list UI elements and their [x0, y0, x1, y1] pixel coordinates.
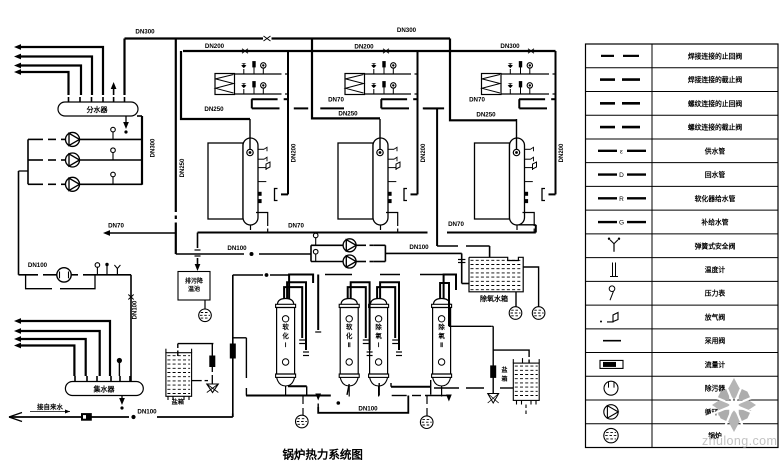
thermometer stem on pipe y94 B1unit — [253, 87, 255, 94]
wire steam trunk B2unit (to bracket) — [417, 51, 419, 194]
wire DN300 drop to distributor — [123, 39, 125, 96]
wire pump suction header (vertical) — [27, 139, 29, 184]
boiler body B1unit — [208, 143, 243, 219]
wire circ pump line 3 (left) — [28, 183, 43, 185]
gauge on feed pump 1 — [315, 237, 317, 245]
wire DN70 loop seal B1unit (C-shape) — [252, 98, 278, 100]
drum blowdown tick 2 B3unit — [525, 200, 528, 203]
feedwater check valve B3unit — [516, 119, 518, 149]
wire feed pump discharge manifold — [384, 245, 386, 261]
svg-text:供水管: 供水管 — [704, 146, 726, 155]
svg-text:补给水管: 补给水管 — [700, 218, 728, 227]
wire feed pump 1 discharge — [356, 244, 366, 246]
svg-text:氧: 氧 — [437, 331, 445, 340]
wire DN100 pump discharge line — [385, 252, 461, 254]
valve stem on pipe y74 B1unit — [243, 69, 245, 74]
valve stem on pipe y94 B2unit — [373, 89, 375, 94]
valve (black) on ejector line — [210, 356, 215, 367]
steam drum B3unit — [510, 138, 525, 225]
drum safety valve B2unit — [388, 167, 396, 169]
return line 2 — [20, 331, 100, 376]
ion-exchanger column C2 top dome — [341, 299, 357, 305]
svg-text:DN300: DN300 — [151, 138, 157, 157]
legend symbol row 1 — [601, 55, 614, 57]
wire DN70 loop seal B3unit (C-shape) — [519, 98, 545, 100]
check dot on DN100 line — [250, 253, 253, 256]
wire funnel riser lower — [492, 377, 494, 393]
floor drain (columns right) — [426, 396, 428, 405]
svg-text:DN200: DN200 — [421, 143, 427, 162]
distributor drain arrow — [125, 116, 127, 125]
ejector valve stem — [211, 344, 213, 356]
wire DN70 loop seal B2unit (C-shape) — [381, 98, 407, 100]
wire DN100 bottom loop — [317, 396, 319, 397]
svg-text:DN250: DN250 — [338, 111, 358, 118]
legend table frame — [586, 44, 779, 448]
circulation pump P1 — [66, 132, 80, 146]
column C1 bottom head — [277, 377, 295, 386]
svg-text:Ⅰ: Ⅰ — [378, 342, 380, 349]
wire feed pump suction manifold — [310, 245, 312, 261]
feedwater check valve B2unit — [379, 119, 381, 149]
legend symbol row 8 — [598, 221, 617, 223]
wire column C3 riser loop inner — [377, 287, 395, 338]
feedwater check valve B1unit — [249, 119, 251, 149]
wire steam trunk B3unit (to bracket) — [555, 51, 557, 194]
wire feedwater B3unit (from DN300 bus step) — [450, 51, 517, 120]
supply arrow line 4 — [20, 72, 69, 95]
legend table row lines — [586, 67, 779, 69]
supply arrow line 2 — [20, 57, 92, 96]
water distributor 分水器 vessel — [58, 102, 138, 116]
column C2 drain stem — [348, 386, 350, 397]
drum level tick B3unit — [525, 181, 533, 183]
pressure gauge on pump line 3 — [112, 176, 114, 184]
floor drain (deaerator 1) — [509, 307, 522, 320]
water meter on tap line — [82, 414, 92, 421]
wire DN70 bus right riser — [535, 225, 537, 233]
collector bottom drain arrow — [121, 396, 123, 401]
flange bracket B2unit — [404, 189, 407, 201]
svg-text:化: 化 — [346, 331, 353, 340]
wire column C1 riser loop mid — [287, 282, 306, 350]
flange bracket B1unit — [275, 189, 278, 201]
svg-text:焊接连接的止回阀: 焊接连接的止回阀 — [688, 51, 743, 60]
legend symbol row 14 — [600, 360, 623, 368]
blowdown box drain pipe — [204, 300, 206, 309]
floor drain (columns left) — [302, 396, 304, 405]
valve stem on pipe y74 B3unit — [509, 69, 511, 74]
svg-text:DN70: DN70 — [469, 97, 485, 104]
column C4 drain stem — [441, 386, 443, 397]
svg-text:流量计: 流量计 — [705, 360, 726, 369]
wire deaerator head inlet — [437, 245, 458, 247]
pump bypass loop — [26, 275, 52, 289]
pressure gauge on pump line 1 — [112, 131, 114, 139]
wire column C2 drain (diagonal) — [347, 384, 349, 395]
wire steam trunk B1unit (to bracket) — [287, 51, 289, 194]
deaerator tank 除氧水箱 — [469, 257, 523, 292]
svg-text:螺纹连接的止回阀: 螺纹连接的止回阀 — [688, 99, 743, 108]
wire DN70 extension B1unit — [294, 107, 308, 109]
svg-text:DN200: DN200 — [354, 44, 374, 51]
wire column C1 riser loop inner — [284, 287, 302, 338]
ejector funnel (right) — [488, 394, 499, 404]
svg-text:集水器: 集水器 — [93, 385, 116, 394]
wire ejector stem lower — [211, 367, 213, 373]
legend symbol row 15 — [604, 381, 618, 395]
wire overflow from tank — [523, 267, 538, 307]
wire distributor-to-pumps trunk DN300 — [141, 116, 143, 185]
legend symbol row 10 — [612, 262, 614, 276]
drum level tick B1unit — [258, 181, 266, 183]
wire economizer top pipe B3unit — [501, 73, 549, 75]
drum gauge tick 1 B3unit — [525, 148, 531, 150]
right tank bottom stub — [525, 405, 527, 409]
drum gauge tick 2 B2unit — [388, 158, 394, 160]
svg-text:盐箱: 盐箱 — [172, 398, 184, 406]
wire circ pump line 3 (right) — [80, 183, 143, 185]
wire funnel riser top corner — [491, 325, 493, 327]
svg-text:DN200: DN200 — [559, 143, 565, 162]
svg-text:温池: 温池 — [188, 285, 200, 293]
wire drum bottom blowdown B2unit — [386, 213, 398, 227]
svg-text:ε: ε — [620, 148, 623, 155]
valve on softener feed riser — [230, 344, 235, 358]
legend symbol row 2 — [600, 78, 615, 81]
column C2 riser flanges — [363, 339, 369, 341]
junction dot below C2 — [337, 402, 340, 405]
economizer coil zigzag B2unit — [346, 75, 364, 94]
wire riser bottom elbow — [232, 414, 234, 418]
wire discharge drop into tank — [461, 253, 463, 283]
svg-text:采用阀: 采用阀 — [704, 336, 726, 345]
wire col1 elbow piece — [288, 385, 307, 387]
economizer coil zigzag B3unit — [482, 75, 500, 94]
column C4 bottom flange — [432, 374, 452, 377]
wire secondary bus DN200 (y=51) — [183, 50, 556, 52]
column C3 bottom head — [370, 377, 388, 386]
svg-text:压力表: 压力表 — [705, 289, 726, 298]
wire branch to salt system — [233, 337, 247, 339]
svg-text:DN100: DN100 — [409, 244, 429, 251]
wire H3 to column C4 — [391, 386, 431, 388]
right tank water hatching — [515, 365, 538, 367]
blowdown cooling box 排污降温池 — [178, 272, 210, 301]
svg-text:化: 化 — [282, 331, 289, 340]
down arrow end of H2 — [446, 395, 452, 402]
wire column C2 riser loop inner — [348, 287, 366, 338]
safety valve on return line — [116, 269, 118, 275]
wire feedwater B2unit (from DN300 bus) — [312, 39, 380, 119]
svg-text:盐: 盐 — [501, 366, 507, 374]
svg-text:R: R — [619, 196, 624, 203]
gauge stem on pipe y74 B1unit — [262, 68, 264, 74]
drum bottom tick B3unit — [516, 225, 518, 230]
wire tap line to softener riser — [157, 416, 233, 418]
wire pump return riser — [18, 171, 20, 275]
svg-text:DN300: DN300 — [135, 29, 155, 36]
legend symbol row 12 — [607, 312, 618, 322]
column C4 top flange — [432, 304, 452, 307]
right tank feet — [516, 400, 518, 404]
valve stem on pipe y94 B3unit — [509, 89, 511, 94]
drum safety valve B3unit — [525, 167, 533, 169]
salt tank feet — [167, 396, 169, 400]
wire economizer bottom pipe B3unit — [501, 93, 549, 95]
economizer box B1unit — [215, 74, 235, 95]
wire circ pump line 2 (left) — [28, 159, 43, 161]
svg-text:箱: 箱 — [501, 375, 507, 383]
wire drain manifold H2 (dashed) — [392, 395, 407, 397]
drum blowdown tick 2 B1unit — [258, 200, 261, 203]
thermometer stem on pipe y94 B2unit — [383, 87, 385, 94]
drum bottom tick B1unit — [250, 225, 252, 230]
legend symbol row 7 — [598, 197, 617, 199]
drum gauge tick 1 B1unit — [258, 148, 264, 150]
economizer box B3unit — [482, 74, 502, 95]
economizer coil zigzag B1unit — [216, 75, 234, 94]
flange bracket B3unit — [542, 189, 545, 201]
column C3 handhole lower — [375, 359, 381, 365]
pressure gauge on pump line 2 — [112, 152, 114, 160]
ejector funnel — [207, 384, 219, 393]
thermometer stem on pipe y94 B3unit — [520, 87, 522, 94]
svg-text:焊接连接的截止阀: 焊接连接的截止阀 — [688, 75, 743, 84]
valve stem on pipe y74 B2unit — [373, 69, 375, 74]
legend symbol row 9 — [613, 244, 615, 252]
svg-text:排污降: 排污降 — [185, 277, 204, 285]
return line 4 — [20, 346, 74, 377]
svg-text:螺纹连接的截止阀: 螺纹连接的截止阀 — [688, 123, 743, 132]
svg-text:D: D — [619, 172, 624, 179]
gauge stem on pipe y94 B2unit — [392, 88, 394, 94]
collector top connection ticks — [74, 376, 76, 382]
svg-text:氧: 氧 — [374, 331, 382, 340]
wire DN300 bus step-down at x=450 — [449, 39, 451, 52]
svg-text:软: 软 — [346, 322, 353, 331]
wire column C3 riser loop mid — [380, 282, 399, 350]
column C3 riser flanges — [392, 339, 398, 341]
column C1 body — [277, 308, 295, 375]
svg-text:DN100: DN100 — [28, 262, 48, 269]
svg-text:Ⅱ: Ⅱ — [440, 342, 443, 349]
svg-text:DN70: DN70 — [288, 223, 304, 230]
drum gauge tick 2 B1unit — [258, 158, 264, 160]
svg-text:zhulong.com: zhulong.com — [702, 434, 777, 448]
legend symbol row 13 — [603, 340, 621, 342]
feedwater pump FP1 — [343, 239, 356, 252]
wire main steam bus DN300 (top) — [125, 37, 264, 39]
wire column C1 riser loop outer — [289, 275, 313, 299]
column C3 drain stem — [378, 386, 380, 397]
floor drain (blowdown box) — [199, 309, 212, 322]
junction dot on raw-water header — [265, 274, 268, 277]
wire drum bottom blowdown B1unit — [256, 213, 268, 227]
svg-text:回水管: 回水管 — [705, 170, 726, 179]
column C1 riser flanges — [299, 339, 305, 341]
watermark pinwheel logo — [727, 378, 741, 400]
gauge on return line — [96, 267, 98, 275]
valve on DN300 bus — [264, 36, 271, 41]
steam drum B1unit — [243, 138, 258, 225]
column C1 top flange — [276, 304, 296, 307]
drum blowdown tick 1 B3unit — [525, 192, 528, 195]
steam drum B2unit — [373, 138, 388, 225]
wire column C2 riser loop mid — [351, 282, 370, 350]
svg-text:DN70: DN70 — [108, 223, 124, 230]
drum blowdown tick 1 B1unit — [258, 192, 261, 195]
wire drum bottom blowdown B3unit — [523, 213, 535, 227]
wire feed pump 2 suction — [311, 261, 343, 263]
wire DN100 return pump line — [19, 274, 39, 276]
svg-text:DN200: DN200 — [205, 43, 225, 50]
thermometer on return line — [106, 266, 108, 275]
wire economizer top pipe B2unit — [365, 73, 412, 75]
wire circ pump line 2 (right) — [80, 159, 143, 161]
svg-text:除: 除 — [438, 322, 445, 331]
legend symbol row 4 — [600, 126, 615, 129]
wire DN100 feedwater line (y=254) — [176, 253, 244, 255]
wire circ pump line 1 (left) — [28, 138, 43, 140]
salt tank 盐箱 (left) — [166, 353, 192, 397]
svg-text:温度计: 温度计 — [705, 265, 726, 274]
wire softener feed riser (x=232.8) — [232, 275, 234, 344]
wire column C4 riser loop — [440, 283, 449, 326]
column C4 body — [433, 308, 451, 375]
valve on DN200 bus (right) — [528, 49, 534, 53]
make-up pump — [57, 268, 71, 282]
boiler body B3unit — [475, 143, 510, 219]
wire economizer bottom pipe B1unit — [235, 93, 282, 95]
wire feed pump 1 suction — [311, 244, 343, 246]
supply arrow line 3 — [20, 66, 81, 96]
valve (black) on funnel riser — [491, 366, 496, 378]
wire T2' steam line to deaerator — [436, 109, 438, 246]
drum gauge tick 2 B3unit — [525, 158, 531, 160]
svg-text:Ⅱ: Ⅱ — [348, 342, 351, 349]
wire column C1 outer riser drop — [317, 275, 319, 331]
valve on DN200 bus (left) — [242, 49, 248, 53]
drum bottom tick B2unit — [380, 225, 382, 230]
wire DN100 drop to collector — [130, 275, 132, 382]
drum level tick B2unit — [388, 181, 396, 183]
svg-text:DN100: DN100 — [227, 245, 247, 252]
column C3 body — [370, 308, 388, 375]
drum blowdown tick 2 B2unit — [388, 200, 391, 203]
svg-text:DN300: DN300 — [397, 27, 417, 34]
wire feed pump 2 discharge — [356, 261, 366, 263]
svg-text:软化器给水管: 软化器给水管 — [695, 194, 736, 203]
wire salt tank outlet — [192, 380, 202, 382]
thermometer stem on pipe y74 B3unit — [520, 67, 522, 74]
column C1 handhole upper — [282, 316, 288, 322]
svg-text:DN300: DN300 — [500, 43, 520, 50]
gauge stem on pipe y74 B3unit — [529, 68, 531, 74]
svg-text:接自来水: 接自来水 — [37, 402, 64, 411]
legend symbol row 5 — [598, 150, 617, 152]
wire DN70 condensate bus — [198, 232, 428, 234]
column C1 drain stem — [285, 386, 287, 397]
economizer box B2unit — [345, 74, 365, 95]
thermometer stem on pipe y74 B2unit — [383, 67, 385, 74]
floor drain (deaerator 2) — [532, 307, 545, 320]
column C3 top flange — [369, 304, 389, 307]
wire DN70 bus left stub with arrow — [108, 232, 176, 234]
drum safety valve B1unit — [258, 167, 266, 169]
svg-text:DN70: DN70 — [328, 97, 344, 104]
valve stem on pipe y94 B1unit — [243, 89, 245, 94]
svg-text:DN100: DN100 — [137, 409, 157, 416]
wire demin transfer line — [434, 387, 459, 389]
boiler body B2unit — [338, 143, 373, 219]
wire economizer top pipe B1unit — [235, 73, 282, 75]
circulation pump P3 — [66, 177, 80, 191]
column C3 handhole upper — [375, 316, 381, 322]
column C2 top flange — [339, 304, 359, 307]
gauge stem on pipe y94 B3unit — [529, 88, 531, 94]
legend symbol row 16 — [604, 405, 618, 419]
legend symbol row 17 — [604, 428, 618, 442]
drum blowdown tick 1 B2unit — [388, 192, 391, 195]
legend table divider — [651, 44, 653, 448]
junction dot tap line — [132, 415, 135, 418]
gauge stem on pipe y74 B2unit — [392, 68, 394, 74]
svg-text:DN200: DN200 — [292, 143, 298, 162]
circulation pump P2 — [66, 153, 80, 167]
wire raw-water header to columns — [233, 274, 263, 276]
wire deaerator drain — [515, 292, 517, 307]
wire economizer bottom pipe B2unit — [365, 93, 412, 95]
column C4 handhole upper — [438, 316, 444, 322]
svg-text:DN100: DN100 — [133, 300, 139, 319]
svg-text:DN100: DN100 — [358, 405, 378, 412]
svg-text:G: G — [619, 220, 624, 227]
gauge stem on pipe y94 B1unit — [262, 88, 264, 94]
valve on DN200 bus (mid) — [383, 49, 389, 53]
column C1 handhole lower — [282, 359, 288, 365]
distributor vent arrow up — [113, 86, 115, 95]
wire salt tank top line — [178, 343, 214, 345]
distributor top connection ticks — [68, 97, 70, 102]
wire circ pump line 1 (right) — [80, 138, 143, 140]
deaerator tank water hatching — [471, 259, 522, 261]
ion-exchanger column C3 top dome — [370, 299, 386, 305]
legend symbol row 3 — [600, 102, 615, 105]
column C2 body — [340, 308, 358, 375]
wire feedwater B1unit (from DN200 bus) — [181, 51, 250, 119]
return line 3 — [20, 339, 86, 376]
svg-text:除氧水箱: 除氧水箱 — [480, 294, 508, 303]
drum gauge tick 1 B2unit — [388, 148, 394, 150]
column C2 handhole lower — [346, 359, 352, 365]
wire V1 trunk (x=175.8) — [175, 39, 177, 213]
column C4 handhole lower — [438, 359, 444, 365]
ion-exchanger column C1 top dome — [277, 299, 293, 305]
salt dissolving tank (right) — [513, 363, 539, 400]
tap water main with arrow — [9, 416, 129, 418]
column C2 handhole upper — [346, 316, 352, 322]
svg-text:锅炉热力系统图: 锅炉热力系统图 — [282, 448, 363, 462]
return line 1 — [20, 321, 110, 376]
wire drain manifold H1 — [246, 395, 331, 397]
svg-text:放气阀: 放气阀 — [704, 312, 726, 321]
wire funnel riser (right) — [492, 326, 494, 366]
wire right tank top feed — [493, 350, 529, 357]
legend symbol row 11 — [609, 286, 615, 292]
feedwater pump FP2 — [343, 255, 356, 268]
column C2 bottom flange — [339, 374, 359, 377]
